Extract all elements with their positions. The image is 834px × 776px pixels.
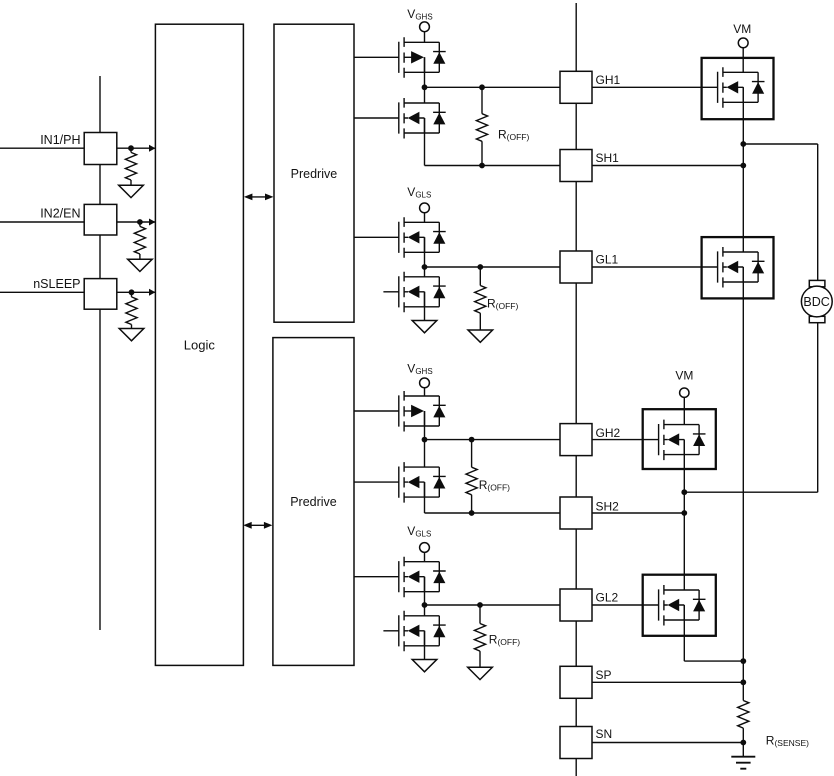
svg-text:SP: SP bbox=[596, 668, 612, 682]
svg-text:R(SENSE): R(SENSE) bbox=[766, 733, 809, 748]
svg-text:VGHS: VGHS bbox=[407, 361, 432, 376]
svg-text:VM: VM bbox=[675, 369, 693, 383]
svg-text:VGLS: VGLS bbox=[407, 185, 431, 200]
svg-text:GL2: GL2 bbox=[596, 590, 619, 604]
svg-text:GH2: GH2 bbox=[596, 426, 621, 440]
svg-text:R(OFF): R(OFF) bbox=[479, 478, 510, 493]
svg-text:SH2: SH2 bbox=[596, 499, 620, 513]
svg-text:R(OFF): R(OFF) bbox=[498, 128, 529, 143]
svg-text:Predrive: Predrive bbox=[290, 495, 337, 509]
svg-text:R(OFF): R(OFF) bbox=[489, 633, 520, 648]
svg-text:VGLS: VGLS bbox=[407, 524, 431, 539]
svg-text:IN2/EN: IN2/EN bbox=[40, 207, 80, 221]
svg-text:Logic: Logic bbox=[184, 338, 216, 353]
svg-text:nSLEEP: nSLEEP bbox=[33, 277, 80, 291]
svg-text:GL1: GL1 bbox=[596, 253, 619, 267]
svg-text:SN: SN bbox=[596, 727, 613, 741]
svg-text:GH1: GH1 bbox=[596, 73, 621, 87]
svg-text:Predrive: Predrive bbox=[291, 167, 338, 181]
svg-text:IN1/PH: IN1/PH bbox=[40, 133, 80, 147]
svg-text:BDC: BDC bbox=[803, 295, 829, 309]
svg-text:R(OFF): R(OFF) bbox=[487, 297, 518, 312]
svg-text:VM: VM bbox=[733, 22, 751, 36]
svg-text:VGHS: VGHS bbox=[407, 7, 432, 22]
svg-text:SH1: SH1 bbox=[596, 151, 620, 165]
